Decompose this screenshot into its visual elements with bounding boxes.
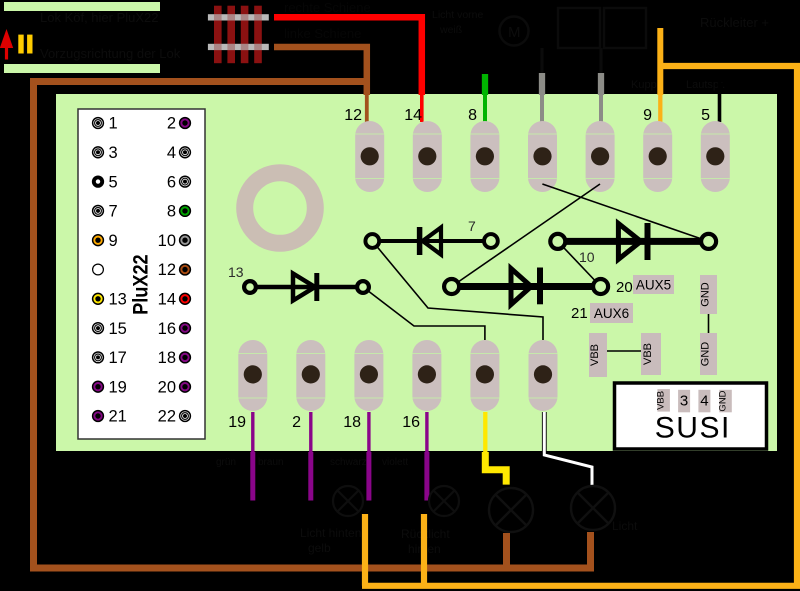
wire red track to pin 14 <box>274 17 422 95</box>
svg-text:VBB: VBB <box>589 344 601 366</box>
wire orange pin 9 <box>657 28 663 95</box>
diode D20 <box>444 268 608 305</box>
SUSI tab 4 <box>698 390 710 413</box>
faint wire color labels under board <box>216 457 408 468</box>
wire yellow <box>483 412 487 453</box>
svg-text:18: 18 <box>158 349 176 367</box>
svg-text:16: 16 <box>158 320 176 338</box>
svg-text:18: 18 <box>343 414 361 431</box>
pin 9 <box>93 235 104 246</box>
pin 10 <box>180 235 191 246</box>
rail/sleeper overlaps <box>214 14 262 50</box>
GND link <box>708 314 710 333</box>
pin 14 <box>180 293 191 304</box>
faint lamp small 2 <box>429 486 459 516</box>
pin 6 <box>180 176 191 187</box>
svg-text:9: 9 <box>109 232 118 250</box>
wire brown lamp return 2 <box>587 532 594 568</box>
svg-text:M: M <box>508 24 521 41</box>
svg-text:3: 3 <box>109 144 118 162</box>
svg-text:8: 8 <box>167 203 176 221</box>
wire gray motor 2 <box>598 73 604 95</box>
svg-text:AUX6: AUX6 <box>594 306 629 321</box>
svg-text:9: 9 <box>643 107 652 124</box>
svg-text:20: 20 <box>616 279 633 296</box>
thin link pad4 to N10R <box>542 184 708 241</box>
thin link N7L to bottom pad white <box>372 241 543 340</box>
pin 13 <box>93 293 104 304</box>
svg-text:Licht hinten: Licht hinten <box>300 526 361 540</box>
svg-text:schwarz: schwarz <box>330 457 367 468</box>
wire purple 18 <box>367 412 370 453</box>
svg-text:GND: GND <box>700 282 712 307</box>
svg-text:braun: braun <box>258 457 284 468</box>
svg-text:8: 8 <box>468 107 477 124</box>
diode D7 <box>365 227 497 255</box>
track crossing icon: sleepers <box>214 6 262 64</box>
PluX22 connector box <box>78 109 205 439</box>
faint lamp 4 <box>571 486 615 530</box>
svg-text:gelb: gelb <box>308 541 331 555</box>
svg-text:Lok Köf, hier PluX22: Lok Köf, hier PluX22 <box>40 10 159 25</box>
pin 3 <box>93 147 104 158</box>
track rail top (green bar) <box>4 2 160 11</box>
wire gray motor 1 <box>539 73 545 95</box>
svg-text:4: 4 <box>700 393 708 410</box>
faint motor symbol <box>500 8 647 73</box>
svg-text:linke Schiene: linke Schiene <box>284 26 361 41</box>
diode D10 <box>550 223 716 260</box>
pin 4 <box>180 147 191 158</box>
pin 12 <box>180 264 191 275</box>
svg-text:GND: GND <box>718 390 729 411</box>
svg-text:weiß: weiß <box>439 24 462 36</box>
wire orange common loop right <box>362 66 797 586</box>
svg-text:4: 4 <box>167 144 176 162</box>
svg-text:13: 13 <box>228 264 244 280</box>
pin 18 <box>180 352 191 363</box>
pad motor1 <box>528 121 557 192</box>
pin 17 <box>93 352 104 363</box>
SUSI tab GND <box>719 390 732 413</box>
pad 9 <box>643 121 672 192</box>
svg-text:5: 5 <box>701 107 710 124</box>
svg-text:17: 17 <box>109 349 127 367</box>
wire brown track to pin 12 <box>274 47 367 95</box>
wire orange lamp feed 2 <box>421 514 427 586</box>
pad 18 <box>354 340 383 411</box>
svg-text:SUSI: SUSI <box>655 412 731 445</box>
svg-text:3: 3 <box>680 393 688 410</box>
top pad labels <box>344 107 710 124</box>
wire brown loop left <box>34 82 595 569</box>
svg-text:6: 6 <box>167 173 176 191</box>
pad 5 <box>701 121 730 192</box>
diode D13 <box>244 273 369 301</box>
pin 2 <box>180 118 191 129</box>
svg-text:2: 2 <box>167 115 176 133</box>
VBB link <box>607 350 641 352</box>
svg-text:12: 12 <box>344 107 362 124</box>
svg-text:7: 7 <box>109 203 118 221</box>
svg-text:16: 16 <box>402 414 420 431</box>
wire orange lamp feed 1 <box>362 514 368 586</box>
pad 16 <box>412 340 441 411</box>
pad 19 <box>238 340 267 411</box>
pad white <box>529 340 558 411</box>
pad 14 <box>413 121 442 192</box>
thin link pad5 to N20L <box>452 184 600 287</box>
svg-text:20: 20 <box>158 378 176 396</box>
pause bars <box>18 35 23 54</box>
svg-text:22: 22 <box>158 408 176 426</box>
svg-text:Licht vorne: Licht vorne <box>432 9 484 21</box>
svg-text:19: 19 <box>228 414 246 431</box>
decoder board <box>56 94 777 451</box>
pin 1 <box>93 118 104 129</box>
pin 15 <box>93 323 104 334</box>
svg-text:VBB: VBB <box>642 343 654 365</box>
thin link N13R to bottom pad yellow <box>363 287 485 340</box>
pin 16 <box>180 323 191 334</box>
svg-text:14: 14 <box>404 107 422 124</box>
svg-text:Rückleiter +: Rückleiter + <box>700 15 769 30</box>
direction arrow <box>5 46 8 60</box>
track rail bottom (green bar) <box>4 64 160 73</box>
svg-text:grün: grün <box>216 457 236 468</box>
pin 8 <box>180 206 191 217</box>
svg-text:5: 5 <box>109 173 118 191</box>
SUSI box <box>615 383 767 449</box>
track crossing icon: rails <box>208 14 269 20</box>
svg-text:19: 19 <box>109 378 127 396</box>
svg-text:12: 12 <box>158 261 176 279</box>
svg-text:13: 13 <box>109 291 127 309</box>
pin 21 <box>93 411 104 422</box>
svg-text:Vorzugsrichtung der Lok: Vorzugsrichtung der Lok <box>40 46 181 61</box>
svg-text:Licht: Licht <box>612 519 638 533</box>
GND tab upper <box>700 275 717 314</box>
pad 12 <box>355 121 384 192</box>
pad 2 <box>296 340 325 411</box>
svg-text:14: 14 <box>158 291 176 309</box>
pin rows <box>93 115 191 426</box>
svg-text:violett: violett <box>382 457 408 468</box>
pin 22 <box>180 411 191 422</box>
bottom pad labels <box>228 414 420 431</box>
pin 5 <box>93 176 104 187</box>
wire purple 19 <box>251 412 254 453</box>
svg-text:21: 21 <box>109 408 127 426</box>
mounting hole ring <box>245 173 316 244</box>
GND tab lower <box>700 333 717 375</box>
wire brown lamp return 1 <box>503 533 510 568</box>
faint lamp small 1 <box>333 486 363 516</box>
wire purple 2 <box>309 412 312 453</box>
svg-text:10: 10 <box>579 249 595 265</box>
svg-text:rechte Schiene: rechte Schiene <box>284 0 371 15</box>
SUSI tab 3 <box>678 390 690 413</box>
bottom solder pads <box>238 340 557 411</box>
wire white <box>544 412 592 486</box>
pin 19 <box>93 381 104 392</box>
SUSI tab VBB <box>657 389 670 412</box>
pin 7 <box>93 206 104 217</box>
wire black pin 5 <box>718 71 722 122</box>
pin 11 <box>93 264 104 275</box>
wire green pin 8 <box>482 74 488 95</box>
svg-text:AUX5: AUX5 <box>636 278 671 293</box>
pin 20 <box>180 381 191 392</box>
svg-text:10: 10 <box>158 232 176 250</box>
VBB tab right <box>641 333 661 375</box>
VBB tab left <box>589 333 607 377</box>
svg-text:21: 21 <box>571 305 588 322</box>
faint lamp 3 <box>489 488 533 532</box>
svg-text:7: 7 <box>468 218 476 234</box>
svg-text:PluX22: PluX22 <box>128 254 152 315</box>
pad yellow <box>470 340 499 411</box>
svg-text:VBB: VBB <box>656 391 667 410</box>
wire purple 16 <box>425 412 428 453</box>
pad motor2 <box>586 121 615 192</box>
thin link N10L to N20R <box>558 241 601 286</box>
svg-text:2: 2 <box>292 414 301 431</box>
pad 8 <box>470 121 499 192</box>
svg-text:1: 1 <box>109 115 118 133</box>
svg-text:GND: GND <box>700 342 712 367</box>
svg-text:15: 15 <box>109 320 127 338</box>
top solder pads <box>355 121 730 192</box>
